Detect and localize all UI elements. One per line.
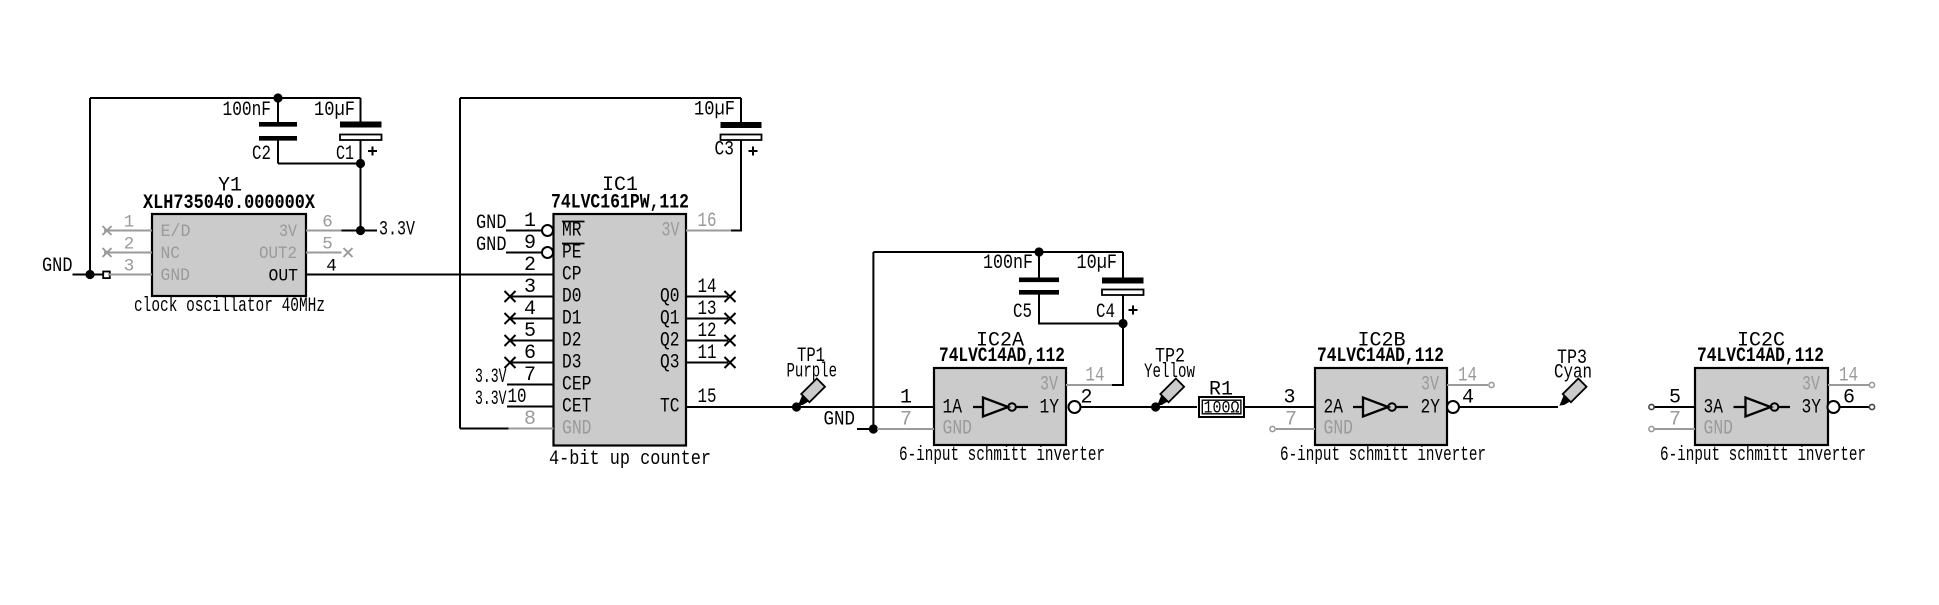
- wire Y1 OUT to IC1 CP: [306, 274, 554, 276]
- svg-text:5: 5: [322, 235, 333, 255]
- svg-text:6-input schmitt inverter: 6-input schmitt inverter: [899, 444, 1105, 467]
- svg-text:15: 15: [698, 386, 717, 409]
- svg-text:1: 1: [524, 210, 536, 233]
- svg-text:7: 7: [1285, 409, 1297, 432]
- svg-text:14: 14: [1839, 365, 1858, 388]
- svg-text:Cyan: Cyan: [1554, 362, 1592, 385]
- svg-text:3V: 3V: [279, 222, 297, 242]
- svg-text:GND: GND: [476, 234, 507, 257]
- pin IC2B-7 GND: [1276, 428, 1315, 430]
- svg-text:CP: CP: [562, 264, 582, 287]
- svg-text:C2: C2: [252, 143, 271, 166]
- capacitor C2 lead bottom: [277, 141, 279, 164]
- pin IC1-13 Q1: [686, 318, 728, 320]
- oscillator Y1 body: [152, 214, 306, 296]
- svg-text:3: 3: [1283, 387, 1295, 410]
- svg-text:GND: GND: [824, 409, 856, 432]
- pin IC2A-7 GND: [877, 428, 934, 430]
- svg-text:6-input schmitt inverter: 6-input schmitt inverter: [1660, 444, 1866, 467]
- svg-text:5: 5: [1669, 387, 1681, 410]
- capacitor C1 plate negative: [340, 135, 382, 141]
- svg-text:GND: GND: [42, 255, 73, 278]
- svg-text:3.3V: 3.3V: [475, 388, 507, 411]
- pin IC1-11 Q3: [686, 362, 728, 364]
- pin IC1-4 D1: [510, 318, 554, 320]
- svg-text:GND: GND: [476, 212, 507, 235]
- svg-text:XLH735040.000000X: XLH735040.000000X: [143, 192, 315, 215]
- svg-text:6: 6: [524, 342, 536, 365]
- capacitor C3 plate negative: [721, 135, 762, 141]
- svg-text:C3: C3: [715, 139, 735, 162]
- svg-text:7: 7: [524, 364, 536, 387]
- capacitor C4 plate positive: [1102, 278, 1144, 284]
- wire GND top rail to C5 C4: [873, 251, 1123, 253]
- svg-text:TC: TC: [660, 396, 680, 419]
- svg-text:2Y: 2Y: [1421, 397, 1441, 420]
- wire GND to IC2A pin 7: [857, 428, 873, 430]
- svg-text:D1: D1: [562, 308, 582, 331]
- svg-text:3.3V: 3.3V: [379, 219, 415, 242]
- svg-text:14: 14: [1086, 365, 1105, 388]
- svg-text:Q0: Q0: [660, 286, 680, 309]
- pin IC1-7 CEP: [507, 384, 554, 386]
- svg-text:GND: GND: [1324, 418, 1354, 441]
- node IC2C input open end: [1649, 404, 1654, 409]
- inverter IC2C triangle: [1734, 398, 1791, 417]
- svg-text:Q3: Q3: [660, 352, 680, 375]
- pin IC1-3 D0: [510, 296, 554, 298]
- svg-text:NC: NC: [161, 244, 181, 264]
- capacitor C1 lead bottom to 3.3V: [360, 140, 362, 231]
- testpoint TP2: [1153, 379, 1184, 410]
- svg-text:8: 8: [524, 408, 536, 431]
- svg-text:PE: PE: [562, 242, 582, 265]
- wire C2 to C1 bottom: [278, 163, 361, 165]
- svg-text:10: 10: [508, 386, 527, 409]
- svg-text:3V: 3V: [662, 220, 680, 243]
- svg-text:1: 1: [124, 213, 135, 233]
- svg-text:3Y: 3Y: [1802, 397, 1822, 420]
- svg-text:10µF: 10µF: [694, 99, 735, 122]
- svg-text:2: 2: [124, 235, 135, 255]
- svg-text:3V: 3V: [1421, 374, 1439, 397]
- svg-text:Q2: Q2: [660, 330, 680, 353]
- svg-text:clock oscillator 40MHz: clock oscillator 40MHz: [134, 295, 325, 318]
- svg-text:D0: D0: [562, 286, 582, 309]
- svg-text:Q1: Q1: [660, 308, 680, 331]
- inverter IC2A body: [934, 368, 1066, 445]
- pin Y1-2 NC: [104, 252, 152, 254]
- svg-text:3.3V: 3.3V: [475, 366, 507, 389]
- inverter IC2C body: [1695, 368, 1828, 445]
- svg-text:OUT2: OUT2: [259, 244, 297, 264]
- svg-text:2: 2: [524, 254, 536, 277]
- pin IC1-6 D3: [510, 362, 554, 364]
- capacitor C3 plus sign: [749, 147, 758, 156]
- capacitor C1 plus sign: [368, 147, 377, 156]
- capacitor C2 lead top: [277, 98, 279, 122]
- svg-text:CEP: CEP: [562, 374, 592, 397]
- svg-text:D3: D3: [562, 352, 582, 375]
- wire IC2B output to TP3: [1459, 406, 1558, 408]
- svg-text:1Y: 1Y: [1040, 397, 1060, 420]
- svg-text:74LVC14AD,112: 74LVC14AD,112: [939, 345, 1065, 368]
- svg-text:CET: CET: [562, 396, 592, 419]
- pin IC2B-14 3V: [1447, 384, 1488, 386]
- pin Y1-1 E/D: [104, 230, 152, 232]
- svg-text:GND: GND: [562, 418, 592, 441]
- svg-text:16: 16: [698, 210, 717, 233]
- capacitor C4 lead top: [1122, 252, 1124, 278]
- pin IC2C-14 3V: [1828, 384, 1869, 386]
- pin IC1-8 GND: [509, 428, 554, 430]
- svg-text:6: 6: [322, 213, 333, 233]
- wire GND vertical riser: [872, 252, 874, 429]
- junction C1 bottom: [356, 159, 365, 168]
- pin Y1-5 OUT2: [306, 252, 342, 254]
- svg-text:7: 7: [1669, 409, 1681, 432]
- svg-text:100nF: 100nF: [223, 99, 272, 122]
- wire IC2A output to R1: [1081, 406, 1198, 408]
- inverter IC2B triangle: [1353, 398, 1408, 417]
- svg-text:6-input schmitt inverter: 6-input schmitt inverter: [1280, 444, 1486, 467]
- wire left vertical GND: [89, 98, 91, 275]
- pin IC1-16 3V: [686, 230, 731, 232]
- svg-text:74LVC161PW,112: 74LVC161PW,112: [551, 192, 689, 215]
- svg-text:13: 13: [698, 298, 717, 321]
- wire IC2C output stub: [1840, 406, 1870, 408]
- svg-text:1A: 1A: [943, 397, 963, 420]
- capacitor C3 plate positive: [721, 122, 762, 128]
- node GND wire-end square: [103, 272, 110, 279]
- svg-text:7: 7: [900, 409, 912, 432]
- capacitor C4 lead bottom to IC2A pin 14: [1112, 295, 1123, 385]
- capacitor C5 lead top: [1038, 252, 1040, 279]
- pin IC1-5 D2: [510, 340, 554, 342]
- junction C2 top: [273, 93, 282, 102]
- svg-text:3V: 3V: [1802, 374, 1820, 397]
- svg-text:10µF: 10µF: [314, 99, 355, 122]
- svg-text:GND: GND: [943, 418, 973, 441]
- wire 3.3V net at Y1: [342, 230, 378, 232]
- svg-text:4-bit up counter: 4-bit up counter: [549, 448, 711, 471]
- capacitor C4 plate negative: [1102, 290, 1144, 296]
- pin IC1-1 MR: [506, 230, 542, 232]
- capacitor C5 plates: [1019, 277, 1059, 282]
- junction GND: [85, 270, 94, 279]
- wire R1 to IC2B: [1244, 406, 1315, 408]
- svg-text:14: 14: [1458, 365, 1477, 388]
- junction C5 top: [1034, 247, 1043, 256]
- svg-text:OUT: OUT: [269, 267, 299, 287]
- wire IC1 top rail: [460, 97, 741, 99]
- svg-text:100nF: 100nF: [983, 252, 1033, 275]
- wire IC2C input stub: [1654, 406, 1695, 408]
- svg-text:3: 3: [124, 257, 135, 277]
- svg-text:74LVC14AD,112: 74LVC14AD,112: [1697, 345, 1824, 368]
- svg-text:9: 9: [524, 232, 536, 255]
- capacitor C2 plates: [259, 122, 297, 127]
- svg-text:C1: C1: [336, 143, 354, 166]
- svg-text:1: 1: [900, 387, 912, 410]
- svg-text:74LVC14AD,112: 74LVC14AD,112: [1317, 345, 1444, 368]
- svg-text:2A: 2A: [1324, 397, 1344, 420]
- svg-text:4: 4: [524, 298, 536, 321]
- junction C4 bottom: [1118, 319, 1127, 328]
- capacitor C1 lead top: [360, 98, 362, 122]
- wire IC1 left vertical: [459, 98, 461, 429]
- junction GND at IC2A: [869, 424, 878, 433]
- svg-text:3V: 3V: [1040, 374, 1058, 397]
- capacitor C3 lead bottom to pin 16: [731, 140, 741, 231]
- svg-text:3: 3: [524, 276, 536, 299]
- node IC2C output open end: [1869, 404, 1874, 409]
- testpoint TP1: [794, 379, 825, 410]
- wire IC1 bottom to pin 8: [460, 428, 509, 430]
- svg-text:GND: GND: [1704, 418, 1734, 441]
- svg-text:Purple: Purple: [787, 361, 838, 384]
- svg-text:11: 11: [698, 342, 717, 365]
- capacitor C1 plate positive: [340, 122, 382, 128]
- svg-text:3A: 3A: [1704, 397, 1724, 420]
- svg-text:10µF: 10µF: [1077, 252, 1118, 275]
- testpoint TP3: [1555, 379, 1586, 410]
- pin IC1-10 CET: [507, 406, 554, 408]
- pin IC2A-14 3V: [1066, 384, 1112, 386]
- pin IC1-9 PE: [506, 252, 542, 254]
- svg-text:5: 5: [524, 320, 536, 343]
- svg-text:12: 12: [698, 320, 717, 343]
- capacitor C5 lead bottom: [1039, 295, 1123, 324]
- pin IC1-12 Q2: [686, 340, 728, 342]
- wire GND to oscillator: [73, 274, 105, 276]
- wire TC to IC2A input: [686, 406, 934, 408]
- inverter IC2B body: [1315, 368, 1447, 445]
- junction 3.3V: [356, 226, 365, 235]
- svg-text:D2: D2: [562, 330, 582, 353]
- wire top-left rail: [90, 97, 361, 99]
- svg-text:C4: C4: [1096, 301, 1115, 324]
- resistor R1: [1199, 397, 1244, 417]
- pin Y1-6 3V: [306, 230, 342, 232]
- svg-text:14: 14: [698, 276, 717, 299]
- capacitor C3 lead top: [740, 98, 742, 122]
- pin Y1-3 GND: [108, 274, 152, 276]
- svg-text:GND: GND: [161, 266, 191, 286]
- svg-text:Yellow: Yellow: [1144, 361, 1195, 384]
- pin IC1-14 Q0: [686, 296, 728, 298]
- svg-text:E/D: E/D: [161, 222, 191, 242]
- pin IC2C-7 GND: [1654, 428, 1695, 430]
- inverter IC2A triangle: [973, 398, 1028, 417]
- svg-text:MR: MR: [562, 220, 582, 243]
- svg-text:C5: C5: [1013, 301, 1032, 324]
- capacitor C4 plus sign: [1129, 306, 1138, 315]
- svg-text:100Ω: 100Ω: [1204, 399, 1240, 419]
- counter IC1 body: [554, 214, 687, 446]
